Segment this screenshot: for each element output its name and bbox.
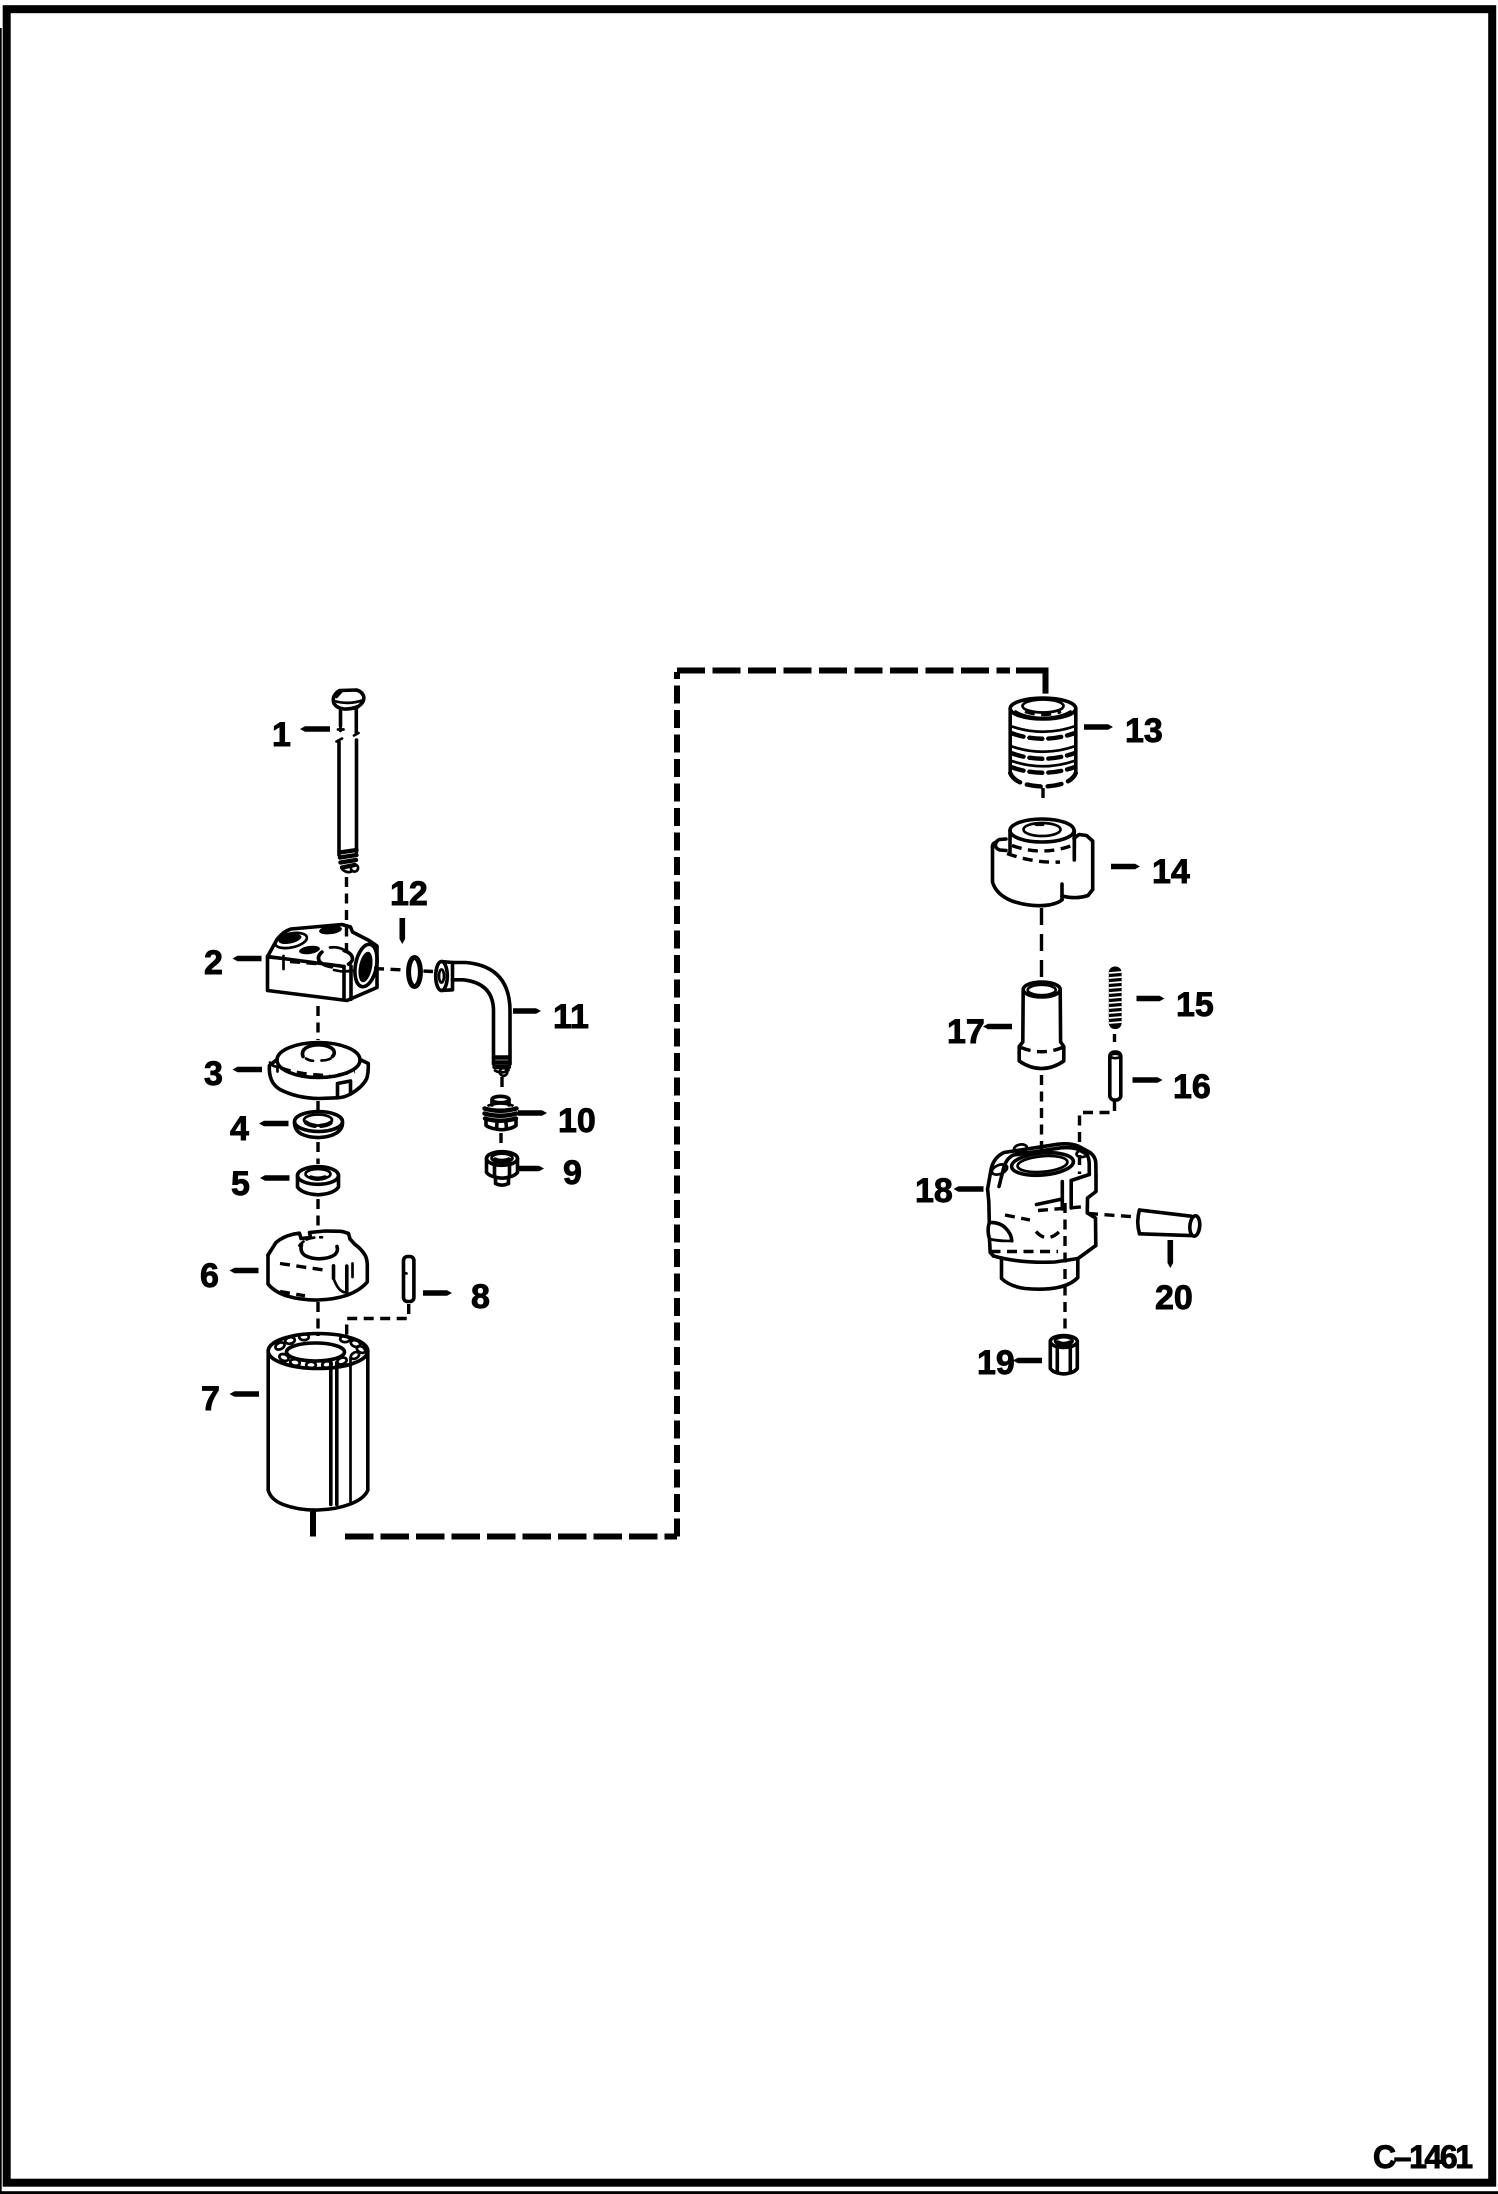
- svg-text:19: 19: [977, 1344, 1015, 1382]
- svg-text:18: 18: [915, 1172, 953, 1210]
- svg-text:20: 20: [1155, 1279, 1193, 1317]
- svg-text:2: 2: [204, 944, 223, 982]
- svg-text:1: 1: [272, 716, 291, 754]
- svg-text:8: 8: [471, 1278, 490, 1316]
- svg-text:16: 16: [1173, 1068, 1211, 1106]
- svg-text:11: 11: [553, 998, 589, 1036]
- svg-text:9: 9: [563, 1154, 582, 1192]
- svg-text:6: 6: [200, 1257, 219, 1295]
- svg-text:14: 14: [1152, 853, 1190, 891]
- svg-text:15: 15: [1176, 986, 1214, 1024]
- svg-text:12: 12: [390, 875, 428, 913]
- svg-text:3: 3: [204, 1055, 223, 1093]
- svg-text:13: 13: [1125, 712, 1163, 750]
- svg-text:C–1461: C–1461: [1373, 2139, 1472, 2175]
- svg-text:7: 7: [201, 1380, 220, 1418]
- svg-text:4: 4: [230, 1110, 249, 1148]
- svg-text:17: 17: [947, 1013, 985, 1051]
- svg-text:5: 5: [231, 1165, 250, 1203]
- svg-text:10: 10: [558, 1102, 596, 1140]
